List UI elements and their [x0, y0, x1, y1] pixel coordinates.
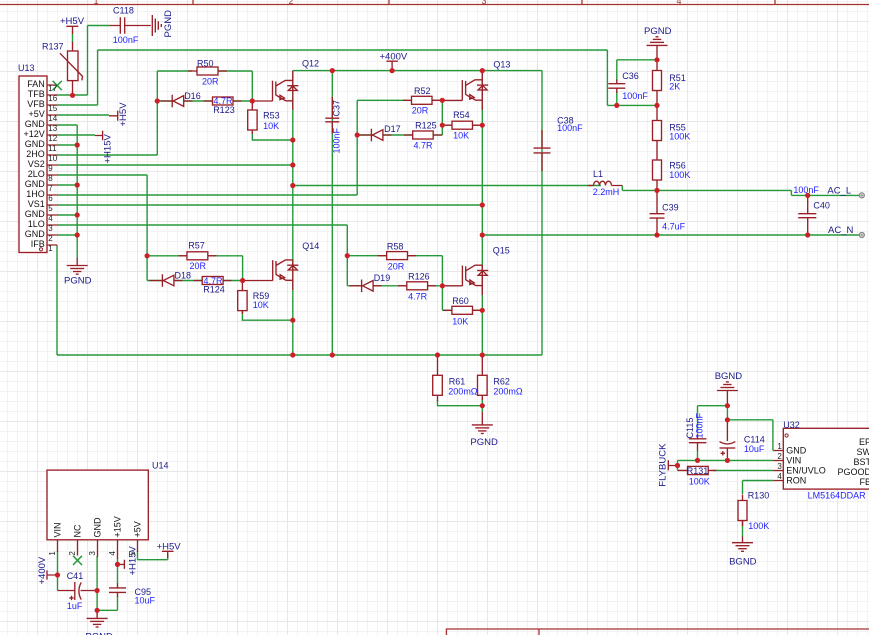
svg-text:AC_N: AC_N — [828, 225, 853, 236]
sheet frame bottom border line (top of view) — [0, 4, 869, 6]
svg-text:+H15V: +H15V — [128, 546, 139, 576]
no-connect X at U14 NC — [73, 556, 82, 565]
svg-text:C39: C39 — [662, 202, 679, 212]
wire GND pin11 stub — [57, 144, 77, 146]
ground PGND (U13 GND bus) — [67, 258, 88, 274]
svg-text:GND: GND — [25, 179, 46, 189]
wire GND pin2 stub — [57, 234, 77, 236]
U13 pin stubs 17..1 — [47, 85, 57, 245]
net flag FLYBUCK — [668, 460, 677, 470]
svg-text:20R: 20R — [412, 105, 429, 115]
svg-text:L1: L1 — [593, 169, 603, 179]
wire 1HO to R52 network — [57, 100, 406, 195]
wire U14 GND column — [96, 556, 98, 614]
svg-text:+15V: +15V — [113, 516, 123, 537]
svg-text:100nF: 100nF — [113, 35, 139, 45]
wire GND bus to PGND — [57, 125, 77, 258]
varistor R137 — [60, 42, 83, 95]
wire BGND node to C115 — [698, 406, 728, 432]
svg-text:20R: 20R — [190, 261, 207, 271]
svg-text:D18: D18 — [175, 271, 192, 281]
svg-text:GND: GND — [25, 209, 46, 219]
svg-text:20R: 20R — [388, 261, 405, 271]
svg-text:2.2mH: 2.2mH — [593, 187, 620, 197]
svg-text:GND: GND — [786, 446, 807, 456]
svg-text:C118: C118 — [113, 6, 134, 16]
U32 pin numbers — [777, 442, 782, 481]
U14 pin names (vertical) — [53, 516, 143, 537]
diode D18 — [150, 274, 183, 287]
wire half-bridge B column Q13-Q15 — [481, 71, 483, 355]
svg-text:2: 2 — [48, 234, 53, 243]
svg-text:EP: EP — [859, 437, 869, 447]
svg-text:BGND: BGND — [729, 557, 757, 568]
svg-text:5: 5 — [128, 551, 137, 556]
svg-text:TFB: TFB — [28, 89, 45, 99]
svg-text:3: 3 — [88, 551, 97, 556]
svg-text:U13: U13 — [18, 63, 35, 73]
svg-text:PGND: PGND — [644, 26, 672, 37]
wire FLYBUCK junction column — [677, 460, 679, 470]
wire U32 pin4 RON to R130 — [743, 481, 774, 495]
wire D18/R124 row — [147, 280, 243, 282]
svg-text:+5V: +5V — [29, 109, 45, 119]
svg-text:C41: C41 — [67, 571, 84, 581]
capacitor C36 — [608, 80, 625, 94]
svg-text:+400V: +400V — [380, 52, 408, 63]
frame column tick — [388, 0, 390, 5]
svg-text:5: 5 — [48, 204, 53, 213]
power flag +H15V (U14) — [118, 560, 125, 569]
svg-text:Q14: Q14 — [302, 241, 319, 251]
svg-text:VS2: VS2 — [28, 159, 45, 169]
wire C115 bottom leg — [697, 450, 699, 460]
svg-text:GND: GND — [25, 139, 46, 149]
svg-text:PGND: PGND — [64, 275, 92, 286]
svg-text:PGOOD: PGOOD — [837, 467, 869, 477]
transistor Q14 — [245, 260, 299, 290]
svg-text:2K: 2K — [669, 82, 680, 92]
diode D17 — [359, 129, 392, 142]
svg-text:7: 7 — [48, 184, 53, 193]
capacitor C39 — [650, 190, 665, 235]
svg-text:BST: BST — [853, 457, 869, 467]
inductor L1 — [588, 181, 622, 185]
resistor R59 — [238, 281, 247, 315]
capacitor C115 — [689, 434, 707, 451]
svg-text:4.7uF: 4.7uF — [662, 221, 686, 231]
capacitor C40 — [798, 195, 816, 235]
resistor R52 — [403, 96, 441, 104]
resistor R56 — [653, 160, 662, 190]
svg-text:100nF: 100nF — [332, 127, 342, 153]
wire GND pin7 stub — [57, 184, 77, 186]
open wire end AC_L — [859, 193, 864, 198]
resistor R130 — [738, 495, 747, 543]
wire GND branch to U32 pin1 — [727, 420, 773, 451]
capacitor C38 — [534, 130, 551, 171]
svg-text:100nF: 100nF — [622, 91, 648, 101]
svg-text:FAN: FAN — [27, 79, 45, 89]
svg-text:17: 17 — [48, 84, 57, 93]
svg-text:VS1: VS1 — [28, 199, 45, 209]
wire half-bridge A column Q12-Q14 — [292, 71, 294, 355]
svg-text:LM5164DDAR: LM5164DDAR — [808, 491, 867, 501]
svg-text:1uF: 1uF — [67, 601, 83, 611]
wire R53 bottom to Q12 emitter — [252, 133, 292, 140]
wire GND pin4 stub — [57, 214, 77, 216]
resistor R125 — [404, 131, 442, 139]
svg-text:4: 4 — [777, 472, 782, 481]
resistor R50 — [188, 67, 227, 75]
svg-text:2HO: 2HO — [26, 149, 45, 159]
resistor R124 — [194, 277, 232, 285]
capacitor C37 — [325, 97, 339, 134]
svg-text:16: 16 — [48, 94, 57, 103]
ground BGND (top, flipped) — [717, 382, 738, 406]
ground PGND (U14) — [87, 613, 108, 627]
svg-text:R131: R131 — [687, 466, 709, 476]
svg-text:R56: R56 — [669, 160, 686, 170]
svg-text:1: 1 — [48, 551, 57, 556]
capacitor C41 (polarized) — [58, 582, 98, 600]
svg-text:15: 15 — [48, 104, 57, 113]
capacitor C118 — [110, 17, 151, 34]
svg-text:2: 2 — [68, 551, 77, 556]
svg-text:100K: 100K — [689, 476, 710, 486]
svg-text:Q12: Q12 — [302, 59, 319, 69]
svg-text:10uF: 10uF — [135, 596, 156, 606]
wire R130 bottom to BGND — [742, 521, 744, 538]
wire +12V pin12 to +H15V flag — [57, 134, 95, 136]
resistor R54 — [443, 121, 482, 129]
svg-text:100nF: 100nF — [557, 123, 583, 133]
svg-text:2LO: 2LO — [28, 169, 45, 179]
U32 pin names left — [786, 446, 826, 486]
svg-text:4: 4 — [676, 0, 681, 6]
wire VS2 to Q12 emitter — [57, 164, 293, 166]
frame column tick — [192, 0, 194, 5]
svg-text:200mΩ: 200mΩ — [493, 386, 523, 396]
svg-text:1: 1 — [777, 442, 782, 451]
svg-text:C37: C37 — [332, 100, 342, 117]
svg-text:R53: R53 — [263, 111, 280, 121]
svg-text:AC_L: AC_L — [827, 186, 851, 197]
svg-text:3: 3 — [48, 224, 53, 233]
wire 2LO to R57 network — [57, 175, 147, 281]
wire C36 bottom leg — [616, 91, 618, 105]
wire TFB net: pin16 to C118 branch — [57, 26, 110, 96]
wire VFB net: pin15 up and across to C36/R51 — [57, 50, 657, 105]
svg-text:D16: D16 — [184, 91, 201, 101]
svg-text:3: 3 — [481, 0, 486, 6]
svg-text:13: 13 — [48, 124, 57, 133]
svg-text:10K: 10K — [452, 316, 468, 326]
wire D16/R123 row — [157, 100, 252, 102]
svg-text:100nF: 100nF — [793, 185, 819, 195]
power flag +H5V (top) — [66, 26, 78, 34]
svg-text:NC: NC — [73, 524, 83, 537]
U14 pin stubs 1..5 — [58, 540, 138, 559]
wire bottom shunt rail — [57, 354, 542, 356]
svg-text:R61: R61 — [449, 377, 466, 387]
svg-text:R123: R123 — [213, 105, 235, 115]
ground PGND (top right, flipped) — [647, 37, 668, 60]
svg-text:C114: C114 — [744, 435, 765, 445]
svg-text:+H5V: +H5V — [157, 542, 182, 553]
svg-text:10K: 10K — [263, 121, 279, 131]
svg-text:VIN: VIN — [786, 456, 801, 466]
svg-text:2: 2 — [777, 452, 782, 461]
svg-text:1: 1 — [93, 0, 98, 6]
svg-text:8: 8 — [48, 174, 53, 183]
svg-text:4.7R: 4.7R — [414, 140, 434, 150]
resistor R53 — [248, 101, 257, 134]
svg-text:100K: 100K — [669, 170, 690, 180]
ground BGND (below R130) — [732, 543, 753, 552]
svg-text:R54: R54 — [453, 110, 470, 120]
svg-text:+H5V: +H5V — [118, 102, 129, 127]
wire +5V pin to +H5V flag — [138, 551, 168, 560]
svg-text:1HO: 1HO — [26, 189, 45, 199]
wire +15V pin to C95 — [117, 558, 119, 584]
svg-text:U14: U14 — [152, 461, 169, 471]
U32 pin names right — [837, 437, 869, 487]
svg-text:R125: R125 — [415, 120, 437, 130]
connector U13 body — [19, 76, 47, 253]
svg-text:200mΩ: 200mΩ — [448, 386, 478, 396]
svg-text:1: 1 — [48, 244, 53, 253]
resistor R60 — [443, 306, 482, 314]
svg-text:PGND: PGND — [470, 437, 498, 448]
svg-text:GND: GND — [93, 517, 103, 538]
svg-text:R62: R62 — [493, 377, 510, 387]
wire 2HO to R50 row — [57, 71, 192, 155]
frame column tick — [774, 0, 776, 5]
svg-text:100K: 100K — [748, 521, 769, 531]
svg-text:4.7R: 4.7R — [408, 292, 428, 302]
svg-text:R58: R58 — [387, 241, 404, 251]
svg-text:D17: D17 — [384, 124, 401, 134]
power flag +400V (U14) — [47, 570, 58, 579]
svg-text:11: 11 — [48, 144, 57, 153]
U13 pin names — [24, 79, 46, 249]
frame column tick — [581, 0, 583, 5]
svg-text:SW: SW — [857, 447, 869, 457]
svg-text:FB: FB — [859, 477, 869, 487]
power flag +H15V (pin12) — [95, 131, 103, 141]
U32 pin stubs 1..4 — [773, 451, 783, 481]
resistor R55 — [653, 105, 662, 160]
svg-text:9: 9 — [48, 164, 53, 173]
capacitor C95 — [109, 584, 126, 598]
svg-text:EN/UVLO: EN/UVLO — [786, 466, 826, 476]
wire +5V pin14 to +H5V flag — [57, 114, 109, 116]
svg-text:10K: 10K — [453, 130, 469, 140]
wire midpoint to L1 — [293, 185, 601, 187]
resistor R131 — [678, 466, 717, 474]
open wire end AC_N — [859, 232, 864, 237]
svg-text:6: 6 — [48, 194, 53, 203]
ground PGND (right-pointing, at C118) — [152, 15, 161, 36]
svg-text:+5V: +5V — [133, 521, 143, 537]
svg-text:GND: GND — [25, 119, 46, 129]
wire R50 to Q12 gate column — [217, 71, 252, 101]
svg-text:10uF: 10uF — [744, 444, 765, 454]
svg-text:10K: 10K — [253, 300, 269, 310]
svg-text:+12V: +12V — [24, 129, 45, 139]
svg-text:100nF: 100nF — [695, 412, 705, 438]
svg-text:R130: R130 — [748, 491, 770, 501]
svg-text:R124: R124 — [203, 284, 225, 294]
wire IFB to shunt rail — [56, 245, 58, 355]
svg-text:VIN: VIN — [53, 522, 63, 537]
svg-text:R57: R57 — [188, 241, 205, 251]
wire L1 jog to C39 node — [622, 186, 657, 191]
svg-text:R137: R137 — [42, 42, 64, 52]
IC U32 body — [783, 428, 869, 489]
wire BGND node down — [726, 406, 728, 420]
resistor R61 — [433, 355, 443, 401]
wire AC_N net — [482, 234, 862, 236]
wire R61 R62 bottom join — [438, 398, 483, 412]
svg-text:GND: GND — [25, 229, 46, 239]
svg-text:R50: R50 — [197, 59, 214, 69]
transistor Q15 — [445, 265, 489, 295]
wire +H5V flag to R137 top — [72, 33, 74, 43]
svg-text:100K: 100K — [669, 131, 690, 141]
wire VS1 to Q13 emitter — [57, 204, 482, 206]
wire R133 to U32 pin3 — [713, 469, 773, 471]
wire R60 row — [442, 286, 482, 311]
resistor R62 — [478, 355, 488, 400]
svg-text:VFB: VFB — [27, 99, 45, 109]
U14 pin numbers (vertical) — [48, 551, 137, 556]
svg-text:12: 12 — [48, 134, 57, 143]
svg-text:BGND: BGND — [715, 371, 743, 382]
svg-text:FLYBUCK: FLYBUCK — [658, 443, 669, 487]
resistor R126 — [398, 282, 436, 290]
wire C95 bottom to GND column — [97, 596, 117, 610]
resistor R123 — [204, 97, 242, 105]
capacitor C114 (polarized) — [720, 421, 736, 460]
wire C37 column — [331, 71, 333, 355]
U13 pin numbers — [48, 84, 57, 253]
wire R57 row — [147, 256, 243, 281]
svg-text:C40: C40 — [813, 201, 830, 211]
svg-text:RON: RON — [786, 476, 806, 486]
title block divider tick — [538, 629, 540, 635]
resistor R51 — [653, 60, 662, 106]
wire D19/R126 row — [347, 285, 442, 287]
power flag +400V — [386, 61, 398, 70]
power flag +H5V (U14) — [162, 551, 174, 558]
svg-text:C115: C115 — [685, 418, 695, 439]
transistor Q12 — [254, 71, 298, 110]
svg-text:2: 2 — [288, 0, 293, 6]
wire PGND node to C36 top — [617, 60, 657, 81]
svg-text:4: 4 — [48, 214, 53, 223]
svg-text:14: 14 — [48, 114, 57, 123]
svg-text:PGND: PGND — [163, 10, 174, 38]
wire VIN row to U32 pin2 — [678, 459, 774, 461]
wire U14 VIN pin to +400V node — [57, 551, 59, 575]
no-connect X at U13 FAN — [53, 81, 62, 90]
resistor R58 — [378, 252, 416, 260]
svg-text:1LO: 1LO — [28, 219, 45, 229]
wire R59 bottom to Q14 emitter — [242, 311, 292, 320]
IC U14 body — [47, 470, 148, 540]
wire 1LO to R58 network — [57, 225, 347, 286]
ground PGND (below shunts) — [472, 412, 493, 434]
svg-text:3: 3 — [777, 462, 782, 471]
svg-text:Q15: Q15 — [493, 246, 510, 256]
svg-text:20R: 20R — [202, 77, 219, 87]
wire R54 row — [442, 124, 482, 126]
svg-text:+H15V: +H15V — [103, 134, 114, 164]
svg-text:+400V: +400V — [37, 556, 48, 584]
svg-text:Q13: Q13 — [493, 60, 510, 70]
diode D19 — [350, 280, 382, 293]
wire +400V node down to C41 — [57, 575, 59, 591]
svg-text:IFB: IFB — [31, 239, 45, 249]
svg-text:R60: R60 — [452, 296, 469, 306]
wire D17/R125 row — [357, 134, 442, 136]
svg-text:C36: C36 — [622, 71, 639, 81]
svg-text:R52: R52 — [414, 86, 431, 96]
wire R52 to Q13 gate column — [432, 100, 442, 135]
transistor Q13 — [444, 71, 488, 110]
svg-text:4: 4 — [108, 551, 117, 556]
svg-text:D19: D19 — [374, 273, 391, 283]
junction dots — [70, 93, 75, 98]
title block border (bottom right) — [446, 629, 869, 635]
wire AC_L net — [657, 190, 862, 195]
svg-text:PGND: PGND — [85, 631, 113, 635]
svg-text:+H5V: +H5V — [60, 16, 85, 27]
wire C38 column — [541, 71, 543, 356]
resistor R57 — [179, 252, 217, 260]
wire +400V rail — [293, 70, 542, 72]
svg-text:U32: U32 — [783, 420, 800, 430]
diode D16 — [161, 95, 193, 108]
svg-text:10: 10 — [48, 154, 57, 163]
svg-text:R126: R126 — [408, 272, 430, 282]
power flag +H5V (pin14) — [109, 111, 118, 121]
wire R58 row — [347, 256, 442, 286]
